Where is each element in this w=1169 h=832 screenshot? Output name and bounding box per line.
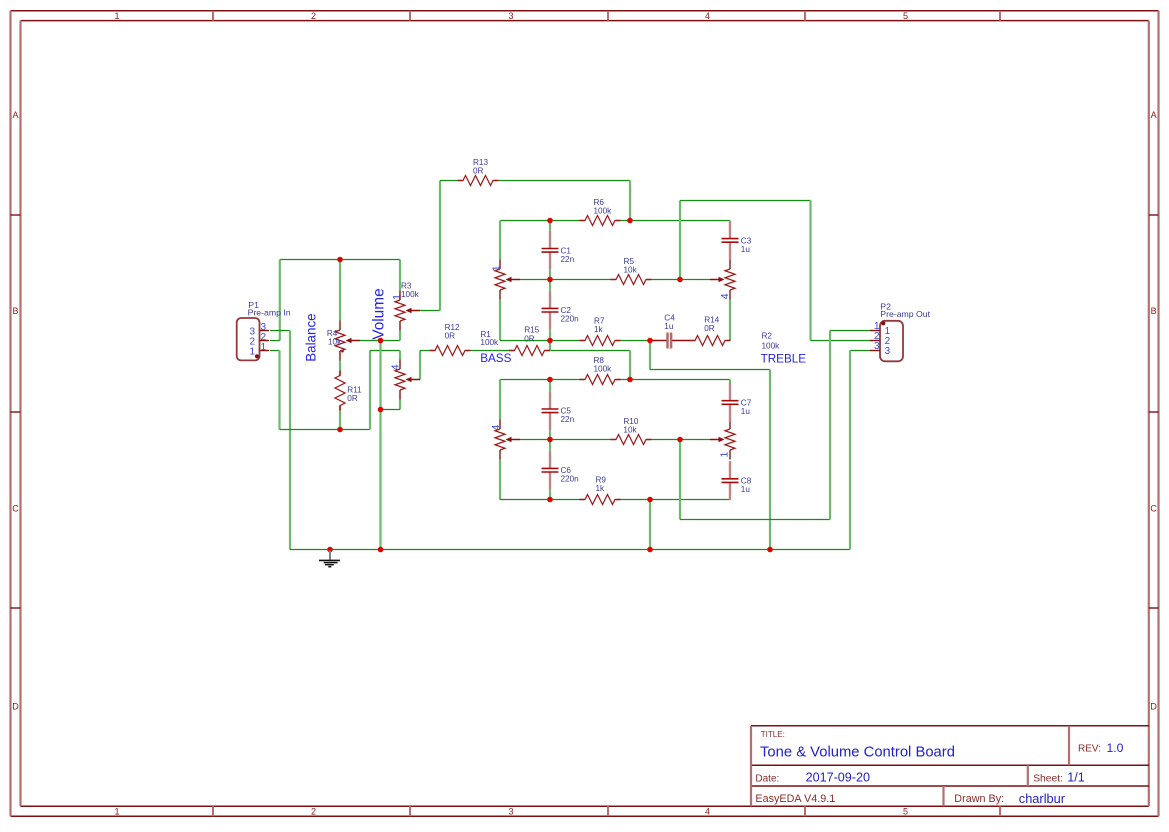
wire <box>499 300 501 341</box>
wire <box>439 181 441 311</box>
wire <box>652 279 681 281</box>
svg-text:1: 1 <box>249 347 255 358</box>
junction <box>647 497 653 503</box>
svg-text:220n: 220n <box>561 475 580 484</box>
svg-text:C: C <box>12 504 19 514</box>
P1 pin1 marker dot <box>255 354 259 358</box>
wire <box>500 220 580 222</box>
wire <box>499 180 631 182</box>
wire <box>680 279 710 281</box>
wire <box>270 330 290 332</box>
wire <box>550 340 580 342</box>
resistor R10 leads <box>611 439 616 441</box>
svg-text:EasyEDA V4.9.1: EasyEDA V4.9.1 <box>755 793 835 805</box>
wire <box>830 330 870 332</box>
potentiometer R3 volume gang 2 <box>395 360 420 400</box>
resistor R9 <box>580 495 621 505</box>
wire <box>629 181 631 221</box>
resistor R14 <box>690 336 731 346</box>
svg-text:A: A <box>1151 110 1157 120</box>
wire <box>549 270 551 280</box>
svg-text:1u: 1u <box>664 322 674 331</box>
wire <box>621 340 651 342</box>
connector P2 <box>880 321 903 362</box>
svg-text:4: 4 <box>705 807 710 817</box>
svg-text:2: 2 <box>311 11 316 21</box>
wire <box>420 350 430 352</box>
svg-text:22n: 22n <box>561 415 575 424</box>
ground <box>319 551 340 567</box>
junction <box>627 377 633 383</box>
P2 pin stubs <box>870 330 880 332</box>
capacitor C8 <box>722 461 739 500</box>
wire <box>849 351 851 550</box>
svg-text:1: 1 <box>718 452 730 458</box>
svg-text:4: 4 <box>705 11 710 21</box>
svg-text:0R: 0R <box>524 334 535 343</box>
P2 pin1 marker dot <box>881 321 885 325</box>
wire <box>629 351 631 380</box>
wire <box>289 331 291 550</box>
wire <box>381 340 401 342</box>
wire <box>270 350 280 352</box>
wire <box>270 340 280 342</box>
wire <box>652 439 681 441</box>
svg-text:1: 1 <box>114 11 119 21</box>
svg-text:1u: 1u <box>741 485 751 494</box>
resistor R7 <box>580 336 621 346</box>
wire <box>499 380 501 420</box>
junction <box>378 407 384 413</box>
capacitor C7 <box>722 383 739 422</box>
svg-text:A: A <box>12 110 18 120</box>
resistor R14 leads <box>690 340 695 342</box>
wire <box>549 430 551 439</box>
svg-text:D: D <box>12 702 19 712</box>
resistor R9 leads <box>580 499 585 501</box>
potentiometer R2 treble gang 1 <box>710 260 735 300</box>
junction <box>547 377 553 383</box>
wire <box>809 201 811 341</box>
wire <box>500 379 580 381</box>
junction <box>627 218 633 224</box>
svg-text:1u: 1u <box>741 407 751 416</box>
svg-text:Tone & Volume Control Board: Tone & Volume Control Board <box>760 745 955 761</box>
wire <box>290 549 850 551</box>
junction <box>547 338 553 344</box>
wire <box>621 379 731 381</box>
svg-text:2017-09-20: 2017-09-20 <box>806 771 870 785</box>
wire <box>339 361 341 371</box>
junction <box>378 547 384 553</box>
svg-text:5: 5 <box>903 11 908 21</box>
capacitor C2 <box>542 291 559 330</box>
wire <box>279 260 281 341</box>
wire <box>829 331 831 520</box>
junction <box>547 277 553 283</box>
wire <box>500 340 550 342</box>
potentiometer R1 bass gang 2 <box>495 420 520 460</box>
wire <box>360 340 381 342</box>
connector P1 <box>237 318 260 360</box>
wire <box>549 330 551 341</box>
P1 pin stubs <box>260 330 270 332</box>
svg-text:100k: 100k <box>594 206 613 215</box>
svg-text:Drawn By:: Drawn By: <box>954 793 1004 805</box>
svg-text:10k: 10k <box>624 266 638 275</box>
wire <box>549 490 551 500</box>
resistor R5 <box>611 275 652 285</box>
wire <box>379 341 381 550</box>
wire <box>471 350 510 352</box>
wire <box>549 380 551 392</box>
capacitor C4 <box>668 333 672 349</box>
svg-text:C: C <box>1150 504 1157 514</box>
wire <box>369 351 371 430</box>
wire <box>550 279 611 281</box>
wire <box>621 499 731 501</box>
svg-text:1k: 1k <box>596 484 606 493</box>
wire <box>381 409 401 411</box>
junction <box>547 218 553 224</box>
wire <box>520 279 550 281</box>
junction <box>547 437 553 443</box>
junction <box>677 437 683 443</box>
svg-text:Volume: Volume <box>370 288 387 339</box>
svg-text:D: D <box>1150 702 1157 712</box>
potentiometer R1 bass gang 1 <box>495 260 520 300</box>
junction <box>647 547 653 553</box>
junction <box>378 338 384 344</box>
svg-text:4: 4 <box>719 293 731 299</box>
resistor R6 <box>580 216 621 226</box>
svg-text:2: 2 <box>311 807 316 817</box>
wire <box>500 499 580 501</box>
resistor R8 leads <box>580 379 585 381</box>
junction <box>337 427 343 433</box>
svg-text:1: 1 <box>114 807 119 817</box>
svg-text:charlbur: charlbur <box>1019 791 1066 806</box>
junction <box>337 257 343 263</box>
svg-text:Date:: Date: <box>755 773 779 784</box>
svg-text:100k: 100k <box>480 338 499 347</box>
wire <box>650 369 770 371</box>
capacitor C5 <box>542 391 559 430</box>
potentiometer R2 treble gang 2 <box>710 420 735 460</box>
wire <box>811 340 871 342</box>
wire <box>850 350 870 352</box>
junction <box>647 338 653 344</box>
wire <box>278 351 280 430</box>
wire <box>649 341 651 370</box>
wire <box>621 220 731 222</box>
resistor R13 <box>458 176 499 186</box>
wire <box>550 439 611 441</box>
wire <box>679 201 681 280</box>
wire <box>399 351 401 361</box>
wire <box>729 300 731 341</box>
wire <box>499 221 501 260</box>
svg-text:3: 3 <box>874 341 880 352</box>
junction <box>547 497 553 503</box>
svg-text:TITLE:: TITLE: <box>761 730 785 739</box>
svg-text:Balance: Balance <box>304 313 319 361</box>
wire <box>729 380 731 384</box>
wire <box>339 411 341 430</box>
wire <box>370 350 400 352</box>
svg-text:3: 3 <box>508 807 513 817</box>
svg-text:1: 1 <box>490 265 502 271</box>
resistor R12 <box>430 346 471 356</box>
wire <box>399 260 401 291</box>
svg-text:1/1: 1/1 <box>1067 771 1085 785</box>
capacitor C6 <box>542 451 559 490</box>
svg-text:1: 1 <box>260 342 266 353</box>
junction <box>677 277 683 283</box>
junction <box>767 547 773 553</box>
svg-text:0R: 0R <box>445 332 456 341</box>
resistor R15 leads <box>509 350 514 352</box>
wire volume R3 bottom lead to row340 <box>399 331 401 341</box>
resistor R8 <box>580 375 621 385</box>
svg-text:22n: 22n <box>561 255 575 264</box>
svg-text:1.0: 1.0 <box>1107 741 1124 755</box>
sheet border frame <box>11 10 1159 12</box>
wire <box>499 460 501 500</box>
capacitor C4 leads <box>650 340 668 342</box>
svg-text:1u: 1u <box>741 245 751 254</box>
resistor R6 leads <box>580 220 585 222</box>
R4 marker dot <box>341 350 344 353</box>
svg-text:B: B <box>12 306 18 316</box>
svg-text:REV:: REV: <box>1078 743 1101 754</box>
svg-text:4: 4 <box>390 364 402 370</box>
potentiometer R4 balance gang <box>335 321 360 361</box>
svg-text:0R: 0R <box>347 394 358 403</box>
wire <box>419 351 421 380</box>
svg-text:0R: 0R <box>473 166 484 175</box>
wire <box>680 200 811 202</box>
svg-text:BASS: BASS <box>480 352 511 365</box>
wire <box>399 400 401 410</box>
resistor R11 <box>335 371 345 411</box>
wire <box>680 439 710 441</box>
svg-text:B: B <box>1151 306 1157 316</box>
svg-text:Pre-amp In: Pre-amp In <box>248 307 291 317</box>
wire <box>339 260 341 321</box>
wire <box>680 519 830 521</box>
resistor R10 <box>611 435 652 445</box>
svg-text:1k: 1k <box>594 325 604 334</box>
wire <box>549 221 551 231</box>
svg-text:100k: 100k <box>594 365 613 374</box>
wire <box>280 259 400 261</box>
wire <box>549 280 551 291</box>
wire <box>420 310 440 312</box>
svg-text:3: 3 <box>508 11 513 21</box>
svg-text:TREBLE: TREBLE <box>761 353 807 366</box>
svg-text:Pre-amp Out: Pre-amp Out <box>880 309 930 319</box>
capacitor C1 <box>542 231 559 270</box>
svg-text:R2: R2 <box>762 331 773 340</box>
svg-text:220n: 220n <box>561 315 580 324</box>
wire <box>729 219 731 222</box>
resistor R13 leads <box>458 180 463 182</box>
svg-text:5: 5 <box>903 807 908 817</box>
wire <box>550 350 630 352</box>
svg-text:10k: 10k <box>623 426 637 435</box>
svg-text:0R: 0R <box>704 324 715 333</box>
svg-text:3: 3 <box>885 346 891 357</box>
wire <box>649 500 651 550</box>
wire <box>440 180 458 182</box>
resistor R5 leads <box>611 279 616 281</box>
wire <box>549 440 551 451</box>
svg-text:10k: 10k <box>328 337 342 346</box>
wire <box>520 439 550 441</box>
resistor R11 leads <box>339 371 341 376</box>
svg-text:100k: 100k <box>762 342 781 351</box>
svg-text:4: 4 <box>490 425 502 431</box>
wire <box>769 370 771 550</box>
title block <box>751 725 1149 727</box>
svg-text:Sheet:: Sheet: <box>1033 773 1063 784</box>
wire <box>549 341 551 351</box>
wire <box>280 429 371 431</box>
capacitor C3 <box>722 221 739 260</box>
wire <box>679 440 681 520</box>
resistor R12 leads <box>430 350 435 352</box>
potentiometer R3 volume gang 1 <box>395 291 420 331</box>
resistor R7 leads <box>580 340 585 342</box>
resistor R15 <box>509 346 550 356</box>
junction <box>327 547 333 553</box>
svg-text:100k: 100k <box>401 290 420 299</box>
